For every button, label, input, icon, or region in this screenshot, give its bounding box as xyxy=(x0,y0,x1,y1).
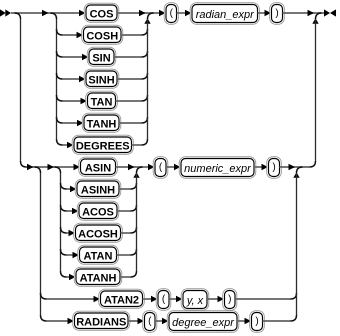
merge corner xyxy=(142,29,148,35)
arrow xyxy=(218,296,225,303)
wire ATAN2 to merge xyxy=(235,298,291,300)
wire xyxy=(254,166,269,168)
corner into second group row xyxy=(21,161,27,167)
terminal TAN xyxy=(86,91,118,110)
arrow xyxy=(68,318,75,325)
terminal ATAN2 xyxy=(99,289,145,308)
wire to ASINH xyxy=(67,188,78,190)
svg-text:y, x: y, x xyxy=(186,295,204,307)
branch corner to RADIANS xyxy=(41,315,47,321)
svg-text:SIN: SIN xyxy=(92,52,110,64)
merge junction bottom group xyxy=(297,167,303,173)
arrow xyxy=(48,164,55,171)
wire ACOSH to merge xyxy=(121,232,131,234)
merge corner xyxy=(131,205,137,211)
terminal ASIN xyxy=(79,157,118,176)
arrow xyxy=(67,142,74,149)
svg-text:radian_expr: radian_expr xyxy=(196,9,255,21)
svg-text:): ) xyxy=(275,8,278,19)
wire xyxy=(143,298,159,300)
terminal SIN xyxy=(87,47,116,66)
wire after ) row7 xyxy=(280,166,310,168)
terminal DEGREES xyxy=(72,135,133,154)
wire RADIANS to merge xyxy=(263,320,291,322)
merge corner RADIANS xyxy=(291,315,297,321)
wire to SINH xyxy=(63,78,87,80)
wire vertical bottom split xyxy=(40,173,42,315)
terminal RADIANS xyxy=(73,311,130,330)
merge junction trig group xyxy=(148,13,154,19)
arrow xyxy=(73,252,80,259)
end symbol xyxy=(324,9,330,16)
wire to TANH xyxy=(63,122,85,124)
wire to SIN xyxy=(63,56,90,58)
svg-text:RADIANS: RADIANS xyxy=(76,316,126,328)
wire to RADIANS xyxy=(47,320,75,322)
arrow xyxy=(159,10,166,17)
branch corner to COSH xyxy=(57,29,63,35)
merge corner xyxy=(142,95,148,101)
svg-text:ASIN: ASIN xyxy=(85,162,111,174)
svg-text:): ) xyxy=(255,316,258,327)
wire ACOS to merge xyxy=(117,210,131,212)
wire to ATANH xyxy=(67,276,77,278)
merge junction arc group xyxy=(137,167,143,173)
arrow xyxy=(70,186,77,193)
arrow xyxy=(69,230,76,237)
wire vertical trig split xyxy=(56,19,58,139)
terminal ( row0 xyxy=(164,3,178,25)
arrow xyxy=(79,10,86,17)
wire xyxy=(258,12,272,14)
wire COS to merge xyxy=(117,12,166,14)
svg-text:ATAN: ATAN xyxy=(84,250,113,262)
svg-text:ATANH: ATANH xyxy=(80,272,117,284)
merge corner xyxy=(131,227,137,233)
terminal TANH xyxy=(82,113,121,132)
terminal ATANH xyxy=(74,267,122,286)
terminal ACOS xyxy=(77,201,119,220)
start symbol xyxy=(0,9,6,16)
branch corner to outer alternatives xyxy=(15,13,21,19)
arrow xyxy=(151,296,158,303)
wire SINH to merge xyxy=(117,78,142,80)
wire COSH to merge xyxy=(121,34,142,36)
merge corner xyxy=(131,183,137,189)
arrow xyxy=(77,32,84,39)
arrow xyxy=(128,164,135,171)
terminal ) row7 xyxy=(267,157,282,179)
branch corner to ATAN2 xyxy=(41,293,47,299)
svg-text:TAN: TAN xyxy=(91,96,113,108)
arrow xyxy=(72,208,79,215)
merge corner xyxy=(142,139,148,145)
arrow xyxy=(308,10,315,17)
arrow xyxy=(42,10,49,17)
wire xyxy=(166,166,181,168)
wire xyxy=(177,12,193,14)
wire vertical bottom merge xyxy=(296,173,298,315)
merge corner xyxy=(131,271,137,277)
wire ASINH to merge xyxy=(119,188,131,190)
arrow xyxy=(138,318,145,325)
merge corner ATAN2 xyxy=(291,293,297,299)
svg-text:DEGREES: DEGREES xyxy=(76,140,130,152)
svg-text:): ) xyxy=(228,294,231,305)
corner into right riser xyxy=(310,161,316,167)
svg-text:ACOSH: ACOSH xyxy=(78,228,118,240)
wire to end xyxy=(283,12,325,14)
wire xyxy=(169,298,183,300)
wire right riser xyxy=(315,19,317,161)
terminal ACOSH xyxy=(74,223,123,242)
branch corner to SINH xyxy=(57,73,63,79)
nonterminal numeric_expr xyxy=(179,157,256,179)
arrow xyxy=(74,164,81,171)
merge corner xyxy=(142,73,148,79)
terminal ( RADIANS xyxy=(143,311,157,333)
wire xyxy=(237,320,252,322)
merge corner xyxy=(131,249,137,255)
branch corner to TAN xyxy=(57,95,63,101)
wire TANH to merge xyxy=(119,122,142,124)
svg-text:degree_expr: degree_expr xyxy=(172,317,235,329)
svg-text:TANH: TANH xyxy=(87,118,117,130)
wire ATAN to merge xyxy=(117,254,131,256)
arrow xyxy=(94,296,101,303)
arrow xyxy=(27,164,34,171)
branch corner to ACOSH xyxy=(61,227,67,233)
branch corner to ATAN xyxy=(61,249,67,255)
branch corner to TANH xyxy=(57,117,63,123)
wire xyxy=(143,166,156,168)
arrow xyxy=(185,10,192,17)
nonterminal y, x xyxy=(181,289,209,311)
wire to COSH xyxy=(63,34,84,36)
svg-text:COSH: COSH xyxy=(86,30,118,42)
terminal ATAN xyxy=(78,245,119,264)
wire xyxy=(128,320,145,322)
wire DEGREES to merge xyxy=(132,144,142,146)
svg-text:COS: COS xyxy=(90,8,114,20)
wire to ATAN xyxy=(67,254,80,256)
wire SIN to merge xyxy=(114,56,142,58)
wire vertical arc merge xyxy=(136,173,138,271)
nonterminal radian_expr xyxy=(190,3,259,25)
arrow xyxy=(245,318,252,325)
wire to ACOSH xyxy=(67,232,76,234)
branch corner to ATANH xyxy=(61,271,67,277)
svg-text:SINH: SINH xyxy=(88,74,114,86)
wire vertical outer branch xyxy=(20,19,22,161)
arrow xyxy=(82,54,89,61)
svg-text:ASINH: ASINH xyxy=(81,184,115,196)
arrow xyxy=(77,120,84,127)
arrow xyxy=(148,164,155,171)
arrow xyxy=(79,76,86,83)
terminal COS xyxy=(84,3,119,22)
svg-text:ATAN2: ATAN2 xyxy=(104,294,139,306)
arrow xyxy=(176,296,183,303)
wire second group lead xyxy=(27,166,81,168)
branch corner to arc-group alternatives xyxy=(55,167,61,173)
terminal ASINH xyxy=(75,179,121,198)
arrow xyxy=(262,164,269,171)
terminal ( row7 xyxy=(153,157,168,179)
arrow xyxy=(81,98,88,105)
wire to TAN xyxy=(63,100,88,102)
wire TAN to merge xyxy=(116,100,142,102)
branch corner to ASINH xyxy=(61,183,67,189)
wire xyxy=(207,298,225,300)
wire to ATAN2 xyxy=(47,298,101,300)
wire vertical arc split xyxy=(60,173,62,271)
wire to DEGREES xyxy=(63,144,75,146)
merge corner xyxy=(142,51,148,57)
terminal ) RADIANS xyxy=(250,311,265,333)
terminal SINH xyxy=(84,69,119,88)
branch corner to trig alternatives xyxy=(51,13,57,19)
arrow xyxy=(265,10,272,17)
terminal ) ATAN2 xyxy=(223,289,237,311)
arrow xyxy=(289,164,296,171)
wire xyxy=(155,320,169,322)
nonterminal degree_expr xyxy=(167,311,239,333)
wire ASIN to merge xyxy=(116,166,143,168)
branch corner to DEGREES xyxy=(57,139,63,145)
merge corner xyxy=(142,117,148,123)
arrow xyxy=(162,318,169,325)
svg-text:numeric_expr: numeric_expr xyxy=(184,163,252,175)
branch corner to ATAN2/RADIANS xyxy=(35,167,41,173)
wire ATANH to merge xyxy=(120,276,131,278)
terminal ( ATAN2 xyxy=(156,289,171,311)
arrow xyxy=(69,274,76,281)
wire main line left xyxy=(11,12,86,14)
wire to ACOS xyxy=(67,210,80,212)
wire vertical trig merge xyxy=(147,19,149,139)
svg-text:): ) xyxy=(272,162,275,173)
arrow xyxy=(174,164,181,171)
terminal COSH xyxy=(82,25,123,44)
arrow xyxy=(139,10,146,17)
merge junction right riser xyxy=(316,13,322,19)
branch corner to SIN xyxy=(57,51,63,57)
branch corner to ACOS xyxy=(61,205,67,211)
svg-text:ACOS: ACOS xyxy=(82,206,114,218)
terminal ) row0 xyxy=(270,3,285,25)
